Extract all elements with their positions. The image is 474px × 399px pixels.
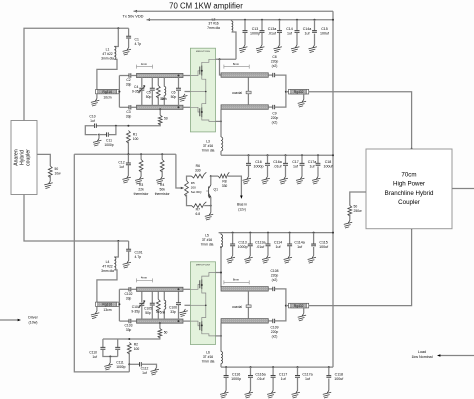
svg-text:C5: C5 (146, 91, 150, 95)
svg-text:C4: C4 (134, 85, 138, 89)
ground for C14a (291, 45, 299, 53)
resistor R3 thermistor (140, 153, 142, 155)
capacitor C108 (268, 288, 273, 290)
svg-text:.01uf: .01uf (268, 32, 276, 36)
ground for C1 (123, 48, 131, 56)
microstrip drain bar A lower (221, 105, 268, 110)
svg-text:1000p: 1000p (231, 377, 241, 381)
coax balun Rg316 13cm B (96, 302, 119, 306)
resistor R1 (126, 131, 130, 144)
svg-text:4mm: 4mm (141, 62, 148, 66)
svg-text:.01uf: .01uf (257, 377, 265, 381)
capacitor C116a (250, 366, 252, 368)
capacitor C16a (267, 154, 269, 156)
svg-text:C110: C110 (89, 351, 97, 355)
wire gate bar A upper to FET (183, 75, 190, 77)
svg-text:R6: R6 (196, 164, 200, 168)
svg-text:5nh: 5nh (160, 310, 166, 314)
capacitor C115 (313, 232, 315, 234)
svg-text:33p: 33p (126, 296, 132, 300)
microstrip drain bar B lower (221, 319, 268, 324)
svg-text:100uf: 100uf (319, 245, 328, 249)
svg-text:C16a: C16a (273, 160, 282, 164)
svg-text:C113: C113 (238, 240, 246, 244)
svg-text:Load: Load (418, 350, 426, 354)
svg-text:Rg402: Rg402 (294, 304, 304, 308)
ground C10 C11 (98, 135, 100, 139)
svg-text:.01uf: .01uf (256, 245, 264, 249)
node Q1 emitter (210, 205, 212, 207)
svg-text:C14: C14 (286, 27, 293, 31)
ground for C113 (227, 256, 235, 264)
capacitor C14 (279, 19, 281, 21)
svg-text:Rg316: Rg316 (102, 90, 112, 94)
svg-text:4T #22: 4T #22 (102, 52, 112, 56)
svg-text:1uf: 1uf (297, 245, 302, 249)
capacitor C110 (102, 339, 104, 347)
svg-text:L4: L4 (106, 260, 110, 264)
wire source stub B (185, 304, 191, 306)
svg-text:C10: C10 (89, 115, 95, 119)
svg-text:22k: 22k (138, 188, 144, 192)
svg-text:100uf: 100uf (320, 32, 329, 36)
ground for 50 10w (44, 181, 52, 189)
svg-text:330: 330 (222, 184, 228, 188)
resistor 50 gate tap B (159, 322, 161, 324)
svg-text:50: 50 (55, 167, 59, 171)
transistor Q1 (210, 176, 212, 185)
svg-text:C117a: C117a (302, 373, 312, 377)
capacitor C18 (317, 154, 319, 156)
svg-text:coupler: coupler (26, 149, 32, 166)
transistor U2 dual LDMOS (190, 262, 215, 345)
svg-text:100: 100 (134, 347, 140, 351)
svg-text:L5: L5 (205, 234, 209, 238)
svg-text:coaxial: coaxial (232, 91, 242, 95)
svg-text:220p: 220p (271, 273, 279, 277)
svg-text:Bias in: Bias in (237, 203, 247, 207)
inductor L1 (114, 28, 118, 46)
wire FET drain A upper (216, 58, 237, 60)
svg-text:1uf: 1uf (119, 165, 124, 169)
resistor R2 (127, 343, 131, 355)
capacitor C15 (314, 19, 316, 21)
svg-text:High Power: High Power (393, 181, 425, 188)
svg-text:C114: C114 (274, 240, 282, 244)
coupler Anaren hybrid (11, 121, 37, 195)
svg-text:C9: C9 (272, 112, 276, 116)
svg-text:9-35p: 9-35p (131, 309, 140, 313)
microstrip gate bar A lower (137, 105, 184, 109)
wire bias vertical to bottom amp (74, 154, 129, 372)
svg-text:C109: C109 (271, 325, 279, 329)
node C11 ground junction (98, 134, 100, 136)
svg-text:50p: 50p (145, 311, 151, 315)
svg-text:33p: 33p (170, 310, 176, 314)
node combine B (285, 305, 287, 307)
ground source B (179, 309, 187, 317)
capacitor C117 (272, 366, 274, 368)
svg-text:33p: 33p (126, 114, 132, 118)
node input junction B (117, 240, 119, 242)
node R1 C12 junction (127, 153, 129, 155)
svg-text:330: 330 (195, 169, 201, 173)
svg-text:thermistor: thermistor (155, 192, 171, 196)
svg-text:3mm dia: 3mm dia (101, 57, 114, 61)
capacitor C9 (268, 106, 273, 108)
svg-text:(x2): (x2) (272, 334, 278, 338)
microstrip gate bar B upper (137, 287, 184, 291)
svg-text:C13a: C13a (268, 27, 277, 31)
microstrip drain bar B upper (221, 287, 268, 292)
capacitor C8 (268, 74, 273, 76)
svg-text:Hybrid: Hybrid (19, 150, 25, 165)
capacitor C14a (296, 19, 298, 21)
svg-text:Branchline Hybrid: Branchline Hybrid (385, 190, 434, 197)
wire VDD spine vertical (332, 11, 334, 367)
wire FET drain B upper (216, 272, 222, 274)
port Bias in 12v (228, 176, 242, 195)
svg-text:(x2): (x2) (272, 121, 278, 125)
svg-text:50: 50 (164, 330, 168, 334)
inductor L2 (231, 20, 233, 21)
svg-text:C103: C103 (125, 324, 133, 328)
svg-text:C12: C12 (118, 161, 124, 165)
svg-text:thermistor: thermistor (134, 192, 150, 196)
svg-text:C104: C104 (132, 305, 140, 309)
svg-text:C115: C115 (319, 240, 327, 244)
svg-text:1000p: 1000p (104, 143, 113, 147)
resistor 50 gate tap A (159, 108, 161, 110)
node R1 top (127, 125, 129, 127)
coaxial balun A (247, 77, 249, 105)
port Driver input (0, 319, 18, 321)
svg-text:C105: C105 (144, 306, 152, 310)
wire VDD bus3 (221, 154, 333, 156)
resistor 50 10w termination (37, 154, 50, 166)
ground for C13a (256, 45, 264, 53)
ground Q1 emitter (210, 206, 212, 213)
svg-text:10w: 10w (55, 172, 62, 176)
svg-text:1000p: 1000p (238, 245, 248, 249)
capacitor C1 (128, 28, 130, 36)
svg-text:coaxial: coaxial (232, 305, 242, 309)
inductor L3 (221, 137, 223, 151)
svg-text:1uf: 1uf (305, 377, 310, 381)
svg-text:100: 100 (133, 137, 139, 141)
ground for Rg316 B (96, 306, 98, 311)
ground for C113a (244, 256, 252, 264)
ground C110 C111 (109, 356, 111, 358)
capacitor C2 (119, 75, 129, 77)
svg-text:(x2): (x2) (272, 64, 278, 68)
ground source A (179, 94, 187, 102)
svg-text:(12v): (12v) (238, 208, 246, 212)
svg-text:Rg316: Rg316 (102, 303, 112, 307)
svg-text:C17a: C17a (308, 160, 317, 164)
capacitor C5 (151, 78, 153, 89)
wire source stub A (185, 91, 191, 93)
wire FET drain B lower (216, 335, 222, 337)
svg-text:1uf: 1uf (310, 165, 315, 169)
svg-text:1000p: 1000p (250, 32, 260, 36)
svg-text:C112: C112 (141, 367, 149, 371)
resistor 10 B (157, 291, 159, 299)
ground Rg402 B (303, 308, 305, 314)
ground for C117a (292, 391, 300, 399)
capacitor C103 (119, 320, 129, 322)
capacitor C117a (297, 366, 299, 368)
node C10 right (115, 125, 117, 127)
wire gate bar B upper to FET (183, 288, 190, 290)
ground for C116 (220, 391, 228, 399)
wire gate bar B lower to FET (183, 320, 190, 322)
capacitor C113 (232, 232, 234, 234)
svg-text:R7: R7 (196, 208, 200, 212)
svg-text:(x2): (x2) (272, 278, 278, 282)
coaxial balun B (247, 291, 249, 319)
svg-text:1uf: 1uf (276, 245, 281, 249)
ground for C115 (308, 256, 316, 264)
wire Anaren bottom port to bottom amp input (24, 195, 129, 242)
svg-text:3T #16: 3T #16 (203, 355, 213, 359)
capacitor C118 (328, 366, 330, 368)
capacitor C4 variable (141, 78, 143, 88)
node Q1 collector (210, 175, 212, 177)
svg-text:C116: C116 (232, 373, 240, 377)
svg-text:R1: R1 (133, 133, 137, 137)
svg-text:C17: C17 (292, 160, 299, 164)
resistor R7 (192, 202, 207, 208)
svg-text:C6: C6 (171, 91, 175, 95)
svg-text:Coupler: Coupler (398, 199, 420, 206)
capacitor C10 (95, 124, 97, 128)
svg-text:250w: 250w (354, 209, 363, 213)
svg-text:L6: L6 (206, 351, 210, 355)
capacitor C114a (289, 232, 291, 234)
ground for C16 (243, 177, 251, 185)
svg-text:5nh: 5nh (161, 97, 167, 101)
svg-text:50: 50 (164, 117, 168, 121)
svg-text:C117: C117 (279, 373, 287, 377)
svg-text:9-35p: 9-35p (132, 90, 141, 94)
svg-text:220p: 220p (271, 330, 279, 334)
svg-text:MRF6VP11KH: MRF6VP11KH (196, 51, 211, 53)
capacitor C109 (268, 320, 273, 322)
svg-text:70 CM 1KW amplifier: 70 CM 1KW amplifier (169, 2, 243, 11)
capacitor C111 (117, 339, 119, 347)
capacitor C102 (119, 288, 129, 290)
svg-text:50: 50 (354, 205, 358, 209)
ground for 50 250w (344, 221, 352, 229)
svg-text:1uf: 1uf (305, 32, 310, 36)
svg-text:C101: C101 (135, 251, 143, 255)
microstrip gate bar A upper (137, 73, 184, 77)
svg-text:C113a: C113a (255, 240, 265, 244)
svg-text:100uf: 100uf (334, 377, 343, 381)
wire Anaren top port to top amp input (24, 28, 129, 120)
ground for C14 (274, 45, 282, 53)
svg-text:8mm: 8mm (233, 62, 240, 66)
ground C12 (122, 176, 130, 184)
coax balun Rg316 10cm A (96, 90, 119, 94)
inductor L5 (219, 233, 221, 235)
inductor 5nh A (163, 78, 165, 87)
svg-text:7mm dia: 7mm dia (202, 360, 215, 364)
svg-text:70cm: 70cm (401, 172, 416, 179)
ground for C16a (262, 177, 270, 185)
capacitor C12 (127, 154, 129, 163)
svg-text:R2: R2 (134, 343, 138, 347)
capacitor C13a (261, 19, 263, 21)
wire FET drain A lower (216, 120, 222, 122)
svg-text:(10w): (10w) (29, 321, 38, 325)
svg-text:C11: C11 (106, 139, 112, 143)
svg-text:C18: C18 (325, 160, 332, 164)
coax Rg402 A (286, 91, 289, 93)
ground for C18 (312, 177, 320, 185)
svg-text:1uf: 1uf (90, 119, 95, 123)
capacitor C116 (225, 366, 227, 368)
ground for C101 (123, 261, 131, 269)
ground Rg402 A (303, 94, 305, 100)
capacitor C106 (178, 288, 180, 290)
ground for C15 (309, 45, 317, 53)
potentiometer R5 Set IDQ (176, 154, 181, 188)
svg-text:220p: 220p (271, 60, 279, 64)
wire VDD bus with arrow (147, 18, 150, 21)
svg-text:4.7p: 4.7p (135, 42, 142, 46)
ground for C13 (239, 45, 247, 53)
svg-text:Driver: Driver (28, 316, 38, 320)
svg-text:Rg402: Rg402 (294, 90, 304, 94)
svg-text:8mm: 8mm (233, 278, 240, 282)
svg-text:C14a: C14a (303, 27, 312, 31)
svg-text:7mm dia: 7mm dia (201, 243, 214, 247)
node combine A (285, 91, 287, 93)
svg-text:50p: 50p (171, 95, 177, 99)
svg-text:3mm dia: 3mm dia (101, 269, 114, 273)
capacitor C113a (249, 232, 251, 234)
capacitor C3 (119, 106, 129, 108)
capacitor C101 (128, 241, 130, 249)
resistor R8 (211, 175, 218, 177)
svg-text:C108: C108 (271, 269, 279, 273)
svg-text:C13: C13 (252, 27, 259, 31)
ground for C17a (296, 177, 304, 185)
svg-text:C102: C102 (125, 292, 133, 296)
svg-text:Q1: Q1 (214, 188, 219, 192)
wire bias bus (74, 153, 176, 155)
svg-text:100uf: 100uf (324, 165, 333, 169)
svg-text:C15: C15 (321, 27, 328, 31)
svg-text:MRF6VP11KH: MRF6VP11KH (196, 265, 211, 267)
wire Rg316 B output split (118, 303, 121, 305)
svg-text:Anaren: Anaren (13, 149, 19, 166)
svg-text:1uf: 1uf (281, 377, 286, 381)
capacitor C114 (267, 232, 269, 234)
svg-text:R5: R5 (191, 181, 195, 185)
resistor 10 A (157, 78, 159, 86)
svg-text:33p: 33p (126, 83, 132, 87)
svg-text:L1: L1 (106, 48, 110, 52)
svg-text:C118: C118 (335, 373, 343, 377)
node R2 top (128, 338, 130, 340)
svg-text:1000p: 1000p (116, 365, 125, 369)
svg-text:3T #16: 3T #16 (203, 144, 213, 148)
ground for C114a (284, 256, 292, 264)
svg-text:50p: 50p (146, 95, 152, 99)
wire Rg316 A output split (118, 91, 121, 93)
svg-text:L3: L3 (206, 140, 210, 144)
capacitor C104 variable (141, 291, 143, 302)
svg-text:.01uf: .01uf (274, 165, 282, 169)
svg-text:R8: R8 (222, 180, 226, 184)
ground C112 (151, 368, 159, 376)
svg-text:33p: 33p (126, 328, 132, 332)
svg-text:6.8: 6.8 (195, 212, 200, 216)
ground for C116a (245, 391, 253, 399)
svg-text:Set IDQ: Set IDQ (191, 190, 202, 194)
svg-text:1uf: 1uf (293, 165, 298, 169)
wire output A to coupler (309, 92, 412, 149)
node input junction A (117, 27, 119, 29)
svg-text:7mm dia: 7mm dia (202, 149, 215, 153)
svg-text:7mm dia: 7mm dia (207, 26, 220, 30)
coax Rg402 B (286, 305, 289, 307)
capacitor C13 (244, 19, 246, 21)
ground for C17 (280, 177, 288, 185)
svg-text:4mm: 4mm (141, 276, 148, 280)
capacitor C105 (151, 291, 153, 303)
svg-text:13cm: 13cm (103, 308, 111, 312)
port Load (440, 355, 474, 357)
resistor R4 thermistor (161, 153, 163, 155)
svg-text:50k: 50k (159, 188, 165, 192)
ground for C114 (262, 256, 270, 264)
wire VDD feed upper with arrow (134, 10, 137, 13)
ground for C118 (323, 391, 331, 399)
svg-text:C1: C1 (135, 38, 139, 42)
svg-text:4T #22: 4T #22 (102, 265, 112, 269)
svg-text:C116a: C116a (255, 373, 265, 377)
coupler 70cm branchline hybrid (366, 149, 452, 229)
ground for Rg316 A (96, 94, 98, 99)
svg-text:4.7p: 4.7p (135, 255, 142, 259)
svg-text:R3: R3 (139, 183, 143, 187)
ground for C117 (267, 391, 275, 399)
resistor 50 250w termination (350, 192, 366, 206)
svg-text:1uf: 1uf (142, 371, 147, 375)
svg-text:C111: C111 (116, 361, 124, 365)
svg-text:C2: C2 (126, 78, 130, 82)
wire coupler output (452, 188, 474, 190)
wire gate bar A lower to FET (183, 106, 190, 108)
wire VDD bus4 (221, 366, 333, 368)
capacitor C6 (178, 75, 180, 77)
svg-text:C8: C8 (272, 55, 276, 59)
svg-text:1kw Nominal: 1kw Nominal (411, 355, 432, 359)
svg-text:C114a: C114a (294, 240, 304, 244)
wire VDD bus2 (219, 232, 333, 234)
svg-text:10cm: 10cm (103, 96, 111, 100)
capacitor C16 (248, 154, 250, 156)
wire output B to coupler (309, 228, 412, 305)
inductor L4 (114, 241, 118, 257)
inductor 5nh B (163, 291, 165, 300)
capacitor C17a (301, 154, 303, 156)
svg-text:1uf: 1uf (92, 355, 97, 359)
